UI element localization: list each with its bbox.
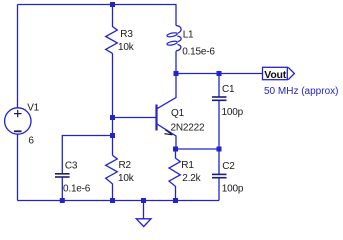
svg-text:0.1e-6: 0.1e-6: [63, 184, 91, 195]
junction C1 top: [217, 71, 222, 76]
svg-text:100p: 100p: [222, 107, 244, 118]
svg-text:Vout: Vout: [264, 69, 286, 81]
resistor R3: [106, 5, 135, 54]
svg-text:6: 6: [28, 136, 34, 147]
ground: [136, 201, 151, 227]
svg-text:C2: C2: [222, 161, 235, 172]
junction C3 bottom: [60, 198, 65, 203]
wire base lead: [113, 117, 157, 119]
svg-text:L1: L1: [183, 30, 194, 41]
svg-text:Q1: Q1: [171, 108, 185, 119]
svg-text:0.15e-6: 0.15e-6: [182, 47, 215, 58]
node Vout flag: [263, 67, 295, 81]
junction R2 bottom: [110, 198, 115, 203]
junction emitter node: [173, 147, 178, 152]
svg-text:R1: R1: [181, 160, 194, 171]
svg-text:R3: R3: [120, 29, 133, 40]
svg-text:R2: R2: [119, 160, 132, 171]
svg-text:2N2222: 2N2222: [171, 122, 205, 133]
svg-text:10k: 10k: [118, 42, 135, 53]
junction ground: [141, 198, 146, 203]
junction C2 top: [217, 147, 222, 152]
wire C3 tap: [62, 136, 112, 174]
wire output rail: [176, 73, 263, 75]
svg-text:100p: 100p: [222, 184, 244, 195]
capacitor C1: [212, 74, 244, 150]
resistor R1: [169, 149, 202, 201]
junction base: [110, 115, 115, 120]
svg-text:10k: 10k: [118, 173, 135, 184]
wire bottom rail: [18, 200, 220, 202]
junction C3 tap: [110, 133, 115, 138]
transistor Q1 2N2222: [157, 74, 205, 150]
wire top rail: [18, 4, 177, 6]
svg-text:C1: C1: [222, 84, 235, 95]
voltage source V1: [5, 102, 40, 146]
wire L1 to collector node: [175, 51, 177, 73]
junction top R3: [110, 2, 115, 7]
junction R1 bottom: [173, 198, 178, 203]
svg-text:V1: V1: [27, 102, 39, 113]
resistor R2: [106, 155, 135, 200]
wire emitter rail: [176, 148, 220, 150]
svg-text:C3: C3: [65, 161, 78, 172]
capacitor C3: [55, 161, 91, 195]
wire mid column R3 to R2: [112, 53, 114, 155]
svg-text:2.2k: 2.2k: [182, 173, 201, 184]
capacitor C2: [212, 149, 244, 201]
svg-text:50 MHz (approx): 50 MHz (approx): [264, 86, 338, 97]
wire left rail: [17, 5, 19, 109]
wire V1 bottom: [17, 134, 19, 200]
wire C3 bottom: [61, 178, 63, 201]
inductor L1: [167, 5, 216, 58]
junction collector node: [174, 71, 179, 76]
